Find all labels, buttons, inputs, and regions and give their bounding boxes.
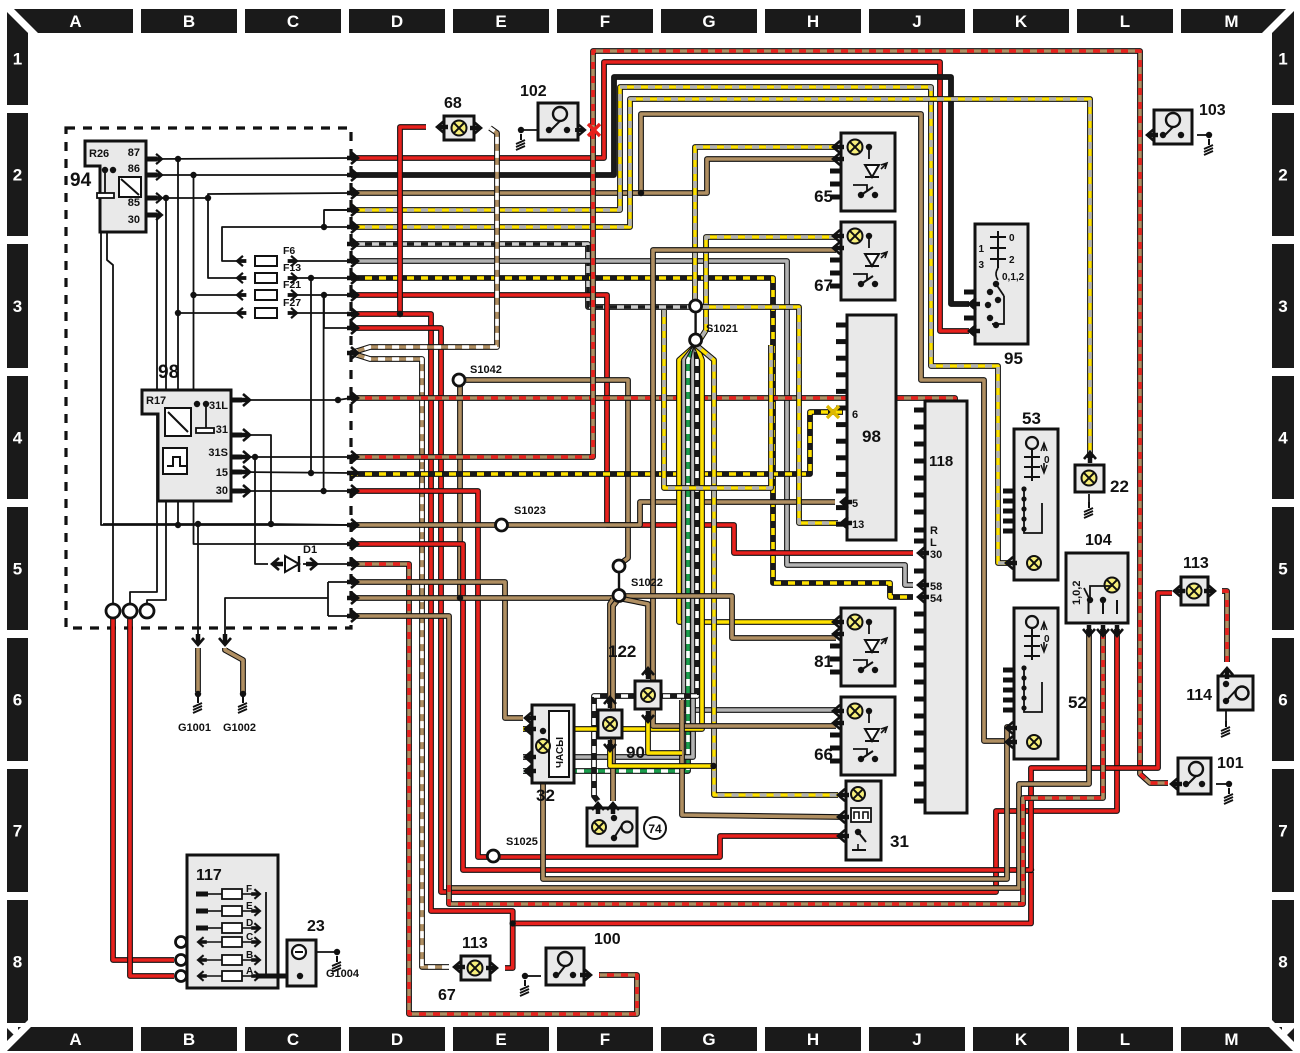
svg-text:L: L [1120,12,1130,31]
svg-text:1: 1 [1278,50,1287,69]
svg-text:87: 87 [128,147,140,159]
svg-text:86: 86 [128,163,140,175]
svg-text:3: 3 [1278,297,1287,316]
svg-text:67: 67 [438,987,456,1004]
svg-text:23: 23 [307,918,325,935]
black line g2 bracket2 [328,615,351,617]
wire brown S1022 to 81 [626,596,836,638]
svg-text:S1022: S1022 [631,577,663,589]
fuse F21 [255,290,277,300]
wire brown 32 to 52 [543,727,1010,879]
wire black-yellow to 118-54 [351,278,913,597]
svg-text:S1025: S1025 [506,836,538,848]
svg-text:M: M [1224,12,1238,31]
connector block 98 [847,315,896,540]
svg-text:118: 118 [929,453,953,470]
black line yg up [324,210,351,227]
wire gray to 118-58 [351,261,913,585]
wire yellow-gray 67 down [699,237,836,341]
black line f drop [324,295,351,328]
svg-text:B: B [183,12,195,31]
black line G1001 drop [197,524,199,640]
svg-text:J: J [912,1030,921,1049]
svg-text:2: 2 [1009,255,1015,266]
svg-text:F13: F13 [283,262,301,274]
black line 31S line [244,456,351,458]
lamp 113 right [1181,577,1208,605]
clock 32 [532,705,574,783]
svg-text:5: 5 [852,498,858,510]
black line D1 line [303,563,351,565]
timer R17 (98) [142,390,231,501]
svg-text:53: 53 [1022,409,1041,428]
node S1023 [496,519,508,531]
indicator 65 [841,133,895,211]
svg-text:F21: F21 [283,279,301,291]
svg-text:L: L [930,537,937,549]
wire brown-red mid to 104 [449,629,1103,904]
svg-text:94: 94 [70,170,92,191]
svg-text:7: 7 [1278,822,1287,841]
svg-text:G: G [702,12,715,31]
svg-text:101: 101 [1217,755,1244,772]
svg-text:31: 31 [216,424,228,436]
black line 22 ground drop [1088,494,1090,502]
wire yellow-gray y488 link [664,310,771,488]
node S1021 upper [690,300,702,312]
link rings2 [618,572,620,589]
black line 31S drop D1 [255,457,268,564]
svg-text:74: 74 [648,822,662,836]
black line F27 left [178,312,240,314]
wire red S1025 to 31 [500,836,841,857]
svg-text:31L: 31L [209,400,228,412]
svg-text:67: 67 [814,276,833,295]
wire red to S1025 [351,491,488,857]
black line 30b up [323,295,325,491]
svg-text:G1001: G1001 [178,722,211,734]
wire brown G1001 [195,648,201,692]
indicator 67 [841,222,895,300]
black line 103 ground line [1197,134,1209,136]
link rings [694,312,696,334]
svg-text:G: G [702,1030,715,1049]
fuse F13 [255,273,277,283]
wire brown S1023 line [351,522,496,528]
ground G1002 [240,691,246,697]
svg-text:113: 113 [1183,555,1209,572]
black line g2 vert [327,582,329,616]
node S1022 upper [613,560,625,572]
svg-text:3: 3 [13,297,22,316]
black line F27 right [296,312,351,314]
svg-text:R26: R26 [89,148,109,160]
svg-text:R: R [930,525,938,537]
svg-text:4: 4 [13,429,23,448]
black line 23 ground line [316,951,337,953]
svg-text:S1023: S1023 [514,505,546,517]
svg-text:1,0,2: 1,0,2 [1071,581,1083,605]
wire yellow-gray ring to 65 [695,147,836,300]
splice X 98-6 [827,406,839,418]
svg-text:30: 30 [930,549,942,561]
svg-text:5: 5 [1278,560,1287,579]
wire yellow bundle to 32b [523,345,702,729]
svg-text:1: 1 [13,50,22,69]
svg-text:C: C [287,1030,299,1049]
wire red ring2 to 117A [130,617,174,976]
svg-text:100: 100 [594,931,621,948]
black line 87 line [152,158,351,159]
wire red ring1 to 117B [113,617,174,960]
svg-text:F6: F6 [283,245,295,257]
wire brown to 31 mid [682,700,840,817]
svg-text:0,1,2: 0,1,2 [1002,272,1025,283]
fuse F6 [255,256,277,266]
node S1022 [613,590,625,602]
wire yellow-gray ring to pin13 [702,307,838,523]
black line F6 left [222,227,324,261]
black line 86 line [152,174,351,176]
switch 74 [587,808,637,846]
wire 113 to 114 [1222,591,1227,662]
lamp 113 bottom [461,956,490,980]
svg-text:E: E [495,12,506,31]
svg-text:L: L [1120,1030,1130,1049]
svg-text:117: 117 [196,867,222,884]
ring out1 [106,604,120,618]
svg-text:J: J [912,12,921,31]
wire brown-white 68R [351,128,497,353]
svg-text:54: 54 [930,593,943,605]
wire brown S1022 to 122 [623,599,648,675]
svg-text:4: 4 [1278,429,1288,448]
svg-text:65: 65 [814,187,833,206]
svg-text:F27: F27 [283,297,301,309]
svg-text:104: 104 [1085,532,1112,549]
wire brown G1002 [225,648,243,694]
black line 31-g line [103,524,351,525]
wire 117A to 23 [256,974,300,979]
wire red conn314 to 113b [351,314,513,968]
svg-text:13: 13 [852,519,864,531]
wire black-yellow to 98 pin6 [351,412,843,474]
wire brown S1022 to 74 [613,601,617,801]
black line yg out2 [324,226,351,228]
node S1042 [453,374,465,386]
black line F13 right [296,277,351,279]
check unit 95 [975,224,1028,344]
wire brown top run to 52 [351,114,1008,741]
svg-text:H: H [807,12,819,31]
wire brown 67 down to 66 [653,250,836,726]
arrow G1002 exit [219,638,231,645]
svg-text:ЧАСЫ: ЧАСЫ [555,737,566,768]
svg-text:22: 22 [1110,477,1129,496]
svg-text:8: 8 [13,953,22,972]
node S1021 [690,334,702,346]
svg-text:3: 3 [978,260,984,271]
wire green-white bundle to 32 [523,345,696,771]
black line 102 ground line [521,129,538,131]
svg-text:85: 85 [128,197,140,209]
node S1025 [487,850,499,862]
fuse box 117 [187,855,278,988]
indicator 81 [841,608,895,686]
wire brown to S1022 [351,595,612,601]
svg-text:S1042: S1042 [470,364,502,376]
wire brown-red 100 loop [351,564,637,1014]
svg-text:114: 114 [1186,687,1212,704]
black line 31 line [244,435,271,524]
black line 85 drop [147,198,166,604]
svg-text:95: 95 [1004,349,1023,368]
heater control 53 [1014,429,1058,580]
connector 118 [925,401,967,813]
sensor 23 [287,940,316,986]
svg-text:G1004: G1004 [326,968,360,980]
lamp 22 [1075,465,1104,492]
black line F13 left [208,198,240,278]
wire yellow-gray to 53 [351,87,1008,563]
wire red to 68 [400,127,426,314]
ring out3 [140,604,154,618]
svg-text:F: F [600,1030,610,1049]
lamp 122 [635,681,661,709]
svg-text:A: A [69,12,81,31]
fuse F27 [255,308,277,318]
wire brown-red 31L [351,398,955,401]
svg-text:68: 68 [444,95,462,112]
relay 94 [85,141,146,232]
wire brown S1022 to 90 [610,599,613,704]
wire black-white bundle to 74 [594,345,697,801]
svg-text:113: 113 [462,935,488,952]
svg-text:A: A [69,1030,81,1049]
black line g2 line [225,598,328,640]
svg-text:C: C [287,12,299,31]
svg-text:R17: R17 [146,395,166,407]
black line F6 right [296,260,351,262]
wire red to 104 right [351,328,1117,892]
svg-text:31: 31 [890,832,909,851]
svg-text:1: 1 [978,244,984,255]
ground G1001 [195,691,201,697]
switch 103 [1154,110,1192,144]
wire gray bundle to 32 [523,345,696,757]
wire brown to 65 [641,159,836,193]
wire yellow-gray to 22 [351,99,1090,458]
svg-text:6: 6 [852,409,858,421]
wire brown S1042 down [457,386,463,597]
black line 15 line [244,472,351,473]
lamp 68 [444,116,474,140]
black line 114 ground drop [1225,710,1227,721]
svg-text:S1021: S1021 [706,323,738,335]
svg-text:K: K [1015,12,1028,31]
black line coil drop2 [107,232,113,605]
svg-text:30: 30 [128,214,140,226]
buzzer 31 [846,781,881,860]
svg-text:8: 8 [1278,953,1287,972]
switch 101 [1178,758,1211,794]
dashed harness boundary [66,128,351,628]
wire red to 118 pin30 [351,295,913,553]
black line 101 ground line [1216,783,1229,785]
black line 30b line [244,490,351,492]
svg-text:0: 0 [1044,455,1050,466]
black line coil drop1 [101,232,351,525]
svg-text:32: 32 [536,786,555,805]
switch 102 [538,103,578,140]
svg-text:103: 103 [1199,102,1226,119]
wire yellow 122 out [648,715,682,753]
svg-text:102: 102 [520,83,547,100]
svg-text:5: 5 [13,560,22,579]
black line g2 bracket [328,581,351,583]
switch 114 [1218,676,1253,710]
wire gray-black to junction [351,244,692,307]
wire red to 113R [351,544,1172,870]
svg-text:H: H [807,1030,819,1049]
connector column [351,152,358,164]
svg-text:90: 90 [626,743,645,762]
svg-text:15: 15 [216,467,228,479]
diode D1 [285,556,299,572]
svg-text:0: 0 [1009,233,1015,244]
svg-text:58: 58 [930,581,942,593]
switch 100 [546,948,584,985]
svg-text:52: 52 [1068,693,1087,712]
wire brown to 32 [351,582,523,718]
black line yg out1 [324,209,351,211]
wire gray bundle to 66 [684,345,836,710]
splice X 102 [588,124,600,136]
svg-text:30: 30 [216,485,228,497]
black line F21 right [296,294,351,296]
svg-text:98: 98 [158,362,179,383]
svg-text:6: 6 [13,691,22,710]
svg-text:2: 2 [13,166,22,185]
svg-text:D1: D1 [303,544,317,556]
svg-text:K: K [1015,1030,1028,1049]
arrow G1001 exit [192,638,204,645]
wire black to 95 [351,77,969,304]
black line 30 line [130,215,157,604]
wire yellow 90 out [610,744,714,766]
svg-text:66: 66 [814,745,833,764]
wire brown S1042 right [466,380,628,564]
svg-text:122: 122 [608,642,636,661]
svg-text:98: 98 [862,427,881,446]
wire yellow bundle to 31 [696,345,838,795]
svg-text:31S: 31S [208,447,228,459]
svg-text:D: D [391,12,403,31]
wire red battery to 95 [351,62,969,331]
black line 31L line [244,398,351,400]
svg-text:B: B [183,1030,195,1049]
svg-text:0: 0 [1044,634,1050,645]
black line 87 drop [177,159,179,525]
black line F21 left [194,294,241,296]
wire brown-white to 113b [351,353,449,967]
svg-text:G1002: G1002 [223,722,256,734]
black line 15 up [310,278,312,473]
svg-text:7: 7 [13,822,22,841]
svg-text:D: D [391,1030,403,1049]
black line 85 line [152,193,351,198]
svg-text:F: F [600,12,610,31]
svg-text:E: E [495,1030,506,1049]
wire brown S1023 right [507,502,835,525]
switch 104 [1066,553,1128,623]
lamp 90 [598,710,622,738]
wire brown to 104 left [351,616,1089,888]
svg-text:M: M [1224,1030,1238,1049]
black line 100 ground line [525,975,541,977]
ring out2 [123,604,137,618]
wire yellow bundle to 81 [679,345,836,622]
svg-text:2: 2 [1278,166,1287,185]
svg-text:81: 81 [814,652,833,671]
heater control 52 [1014,608,1058,759]
indicator 66 [841,697,895,775]
wire brown-red 31S to top [351,51,1168,783]
svg-text:6: 6 [1278,691,1287,710]
black line 86 drop [194,175,352,544]
wire red 113b to right [513,872,1031,923]
